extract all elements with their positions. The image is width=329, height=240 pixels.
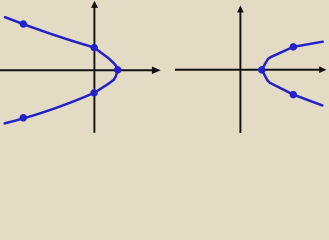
- left curve: [5, 17, 118, 123]
- right plot x-axis arrowhead: [319, 66, 326, 73]
- left dot on x-axis (vertex): [114, 66, 122, 74]
- left dot on y-axis upper: [90, 44, 98, 52]
- left dot on y-axis lower: [90, 89, 98, 97]
- right curve upper branch: [262, 42, 323, 70]
- right dot on x-axis (vertex): [258, 66, 266, 74]
- right curve lower branch: [262, 70, 323, 106]
- left plot y-axis: [93, 7, 95, 133]
- right plot x-axis: [175, 69, 320, 71]
- left plot y-axis arrowhead: [91, 1, 98, 8]
- right dot lower branch: [290, 91, 298, 99]
- left dot lower-left: [20, 114, 28, 122]
- left plot x-axis: [0, 69, 153, 71]
- left dot upper-left: [20, 20, 28, 28]
- left plot x-axis arrowhead: [152, 67, 161, 75]
- right plot y-axis arrowhead: [237, 5, 244, 12]
- right dot upper branch: [290, 43, 298, 51]
- right plot y-axis: [239, 12, 241, 134]
